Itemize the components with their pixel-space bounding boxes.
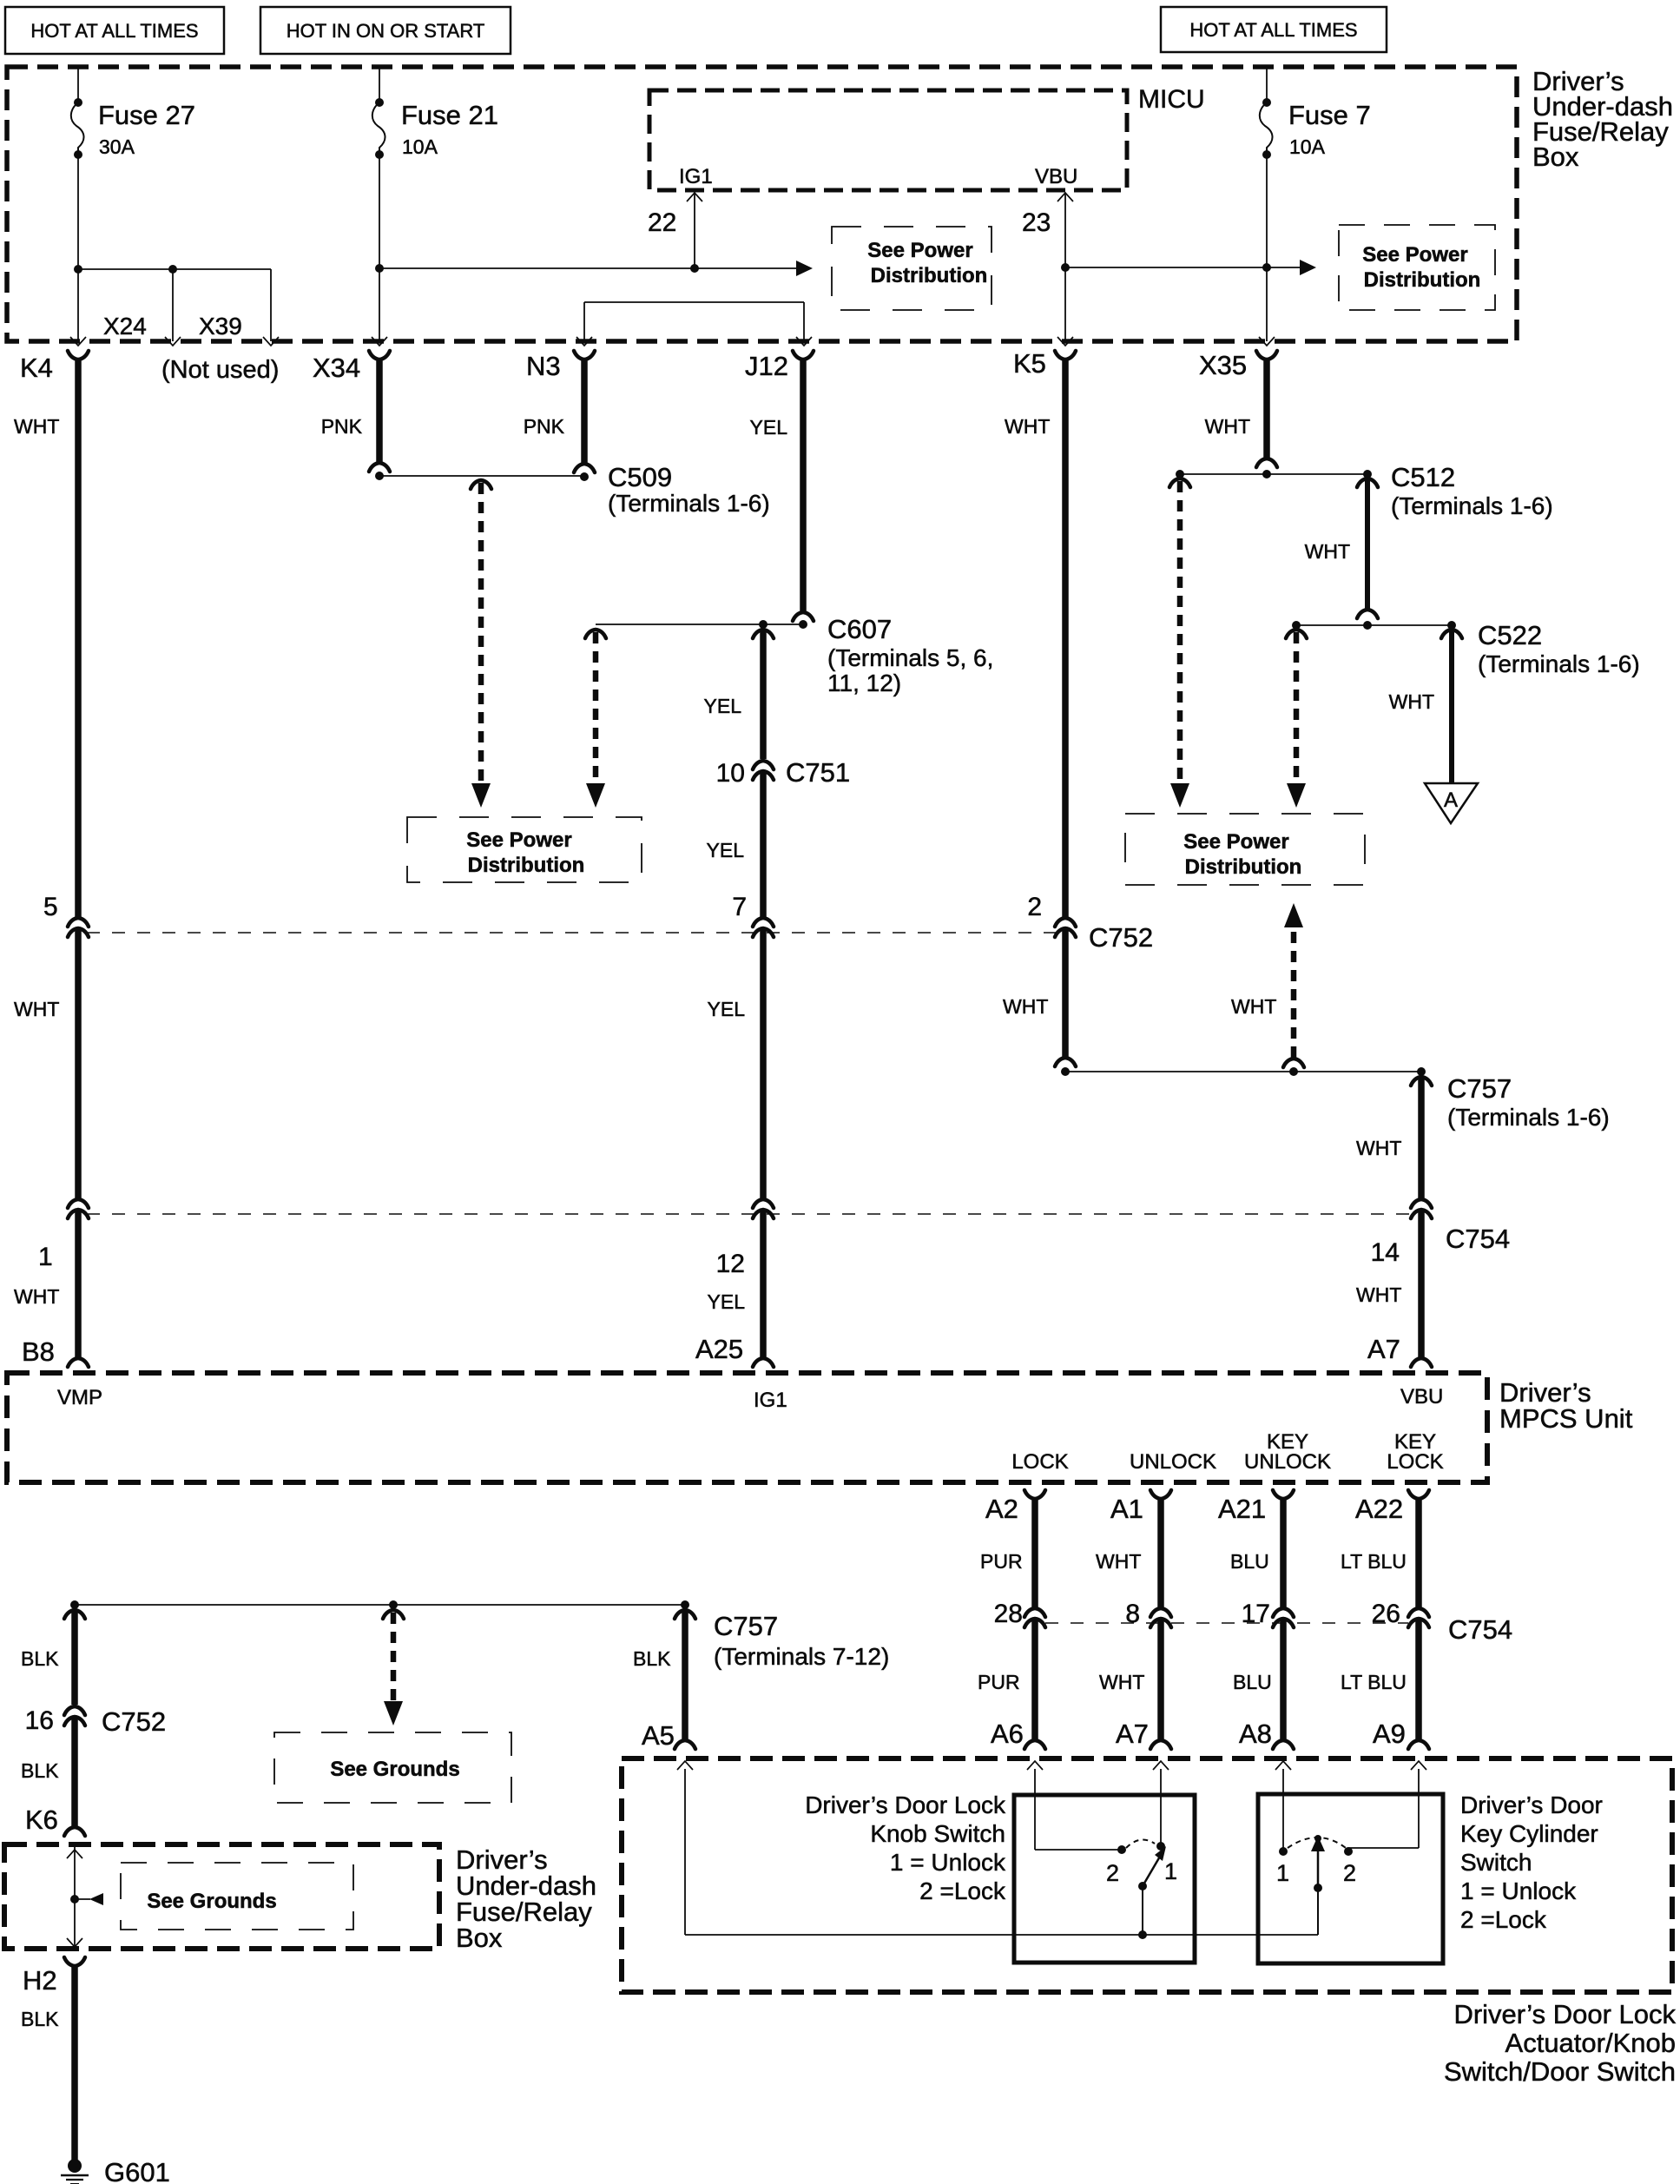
svg-text:A8: A8 [1239,1719,1272,1749]
svg-text:X34: X34 [313,353,360,383]
svg-text:H2: H2 [23,1965,57,1996]
svg-text:2 =Lock: 2 =Lock [1460,1906,1547,1933]
svg-text:Driver’s Door: Driver’s Door [1460,1791,1603,1818]
svg-text:VBU: VBU [1035,165,1077,188]
svg-text:A5: A5 [642,1720,675,1751]
svg-text:A: A [1444,788,1458,812]
svg-text:See Power: See Power [466,828,571,852]
svg-text:WHT: WHT [1205,415,1250,438]
connector line C754 (dashed) [87,1213,1412,1215]
svg-text:Key Cylinder: Key Cylinder [1460,1820,1598,1847]
svg-text:(Terminals 5, 6,: (Terminals 5, 6, [827,644,993,671]
wire X34 PNK [321,351,390,480]
svg-text:BLU: BLU [1230,1550,1269,1573]
svg-text:YEL: YEL [750,416,788,439]
svg-text:Fuse 21: Fuse 21 [401,100,498,130]
svg-text:C754: C754 [1446,1224,1510,1254]
svg-text:1: 1 [1276,1860,1289,1886]
svg-text:YEL: YEL [708,998,746,1020]
wire A1 WHT (UNLOCK) [1096,1490,1171,1749]
svg-text:IG1: IG1 [754,1389,787,1412]
svg-text:MPCS Unit: MPCS Unit [1499,1403,1633,1434]
wire YEL from C607 to MPCS A25 [695,630,850,1367]
switch lever (key cylinder) [1276,1835,1356,1935]
switch Driver's Door Lock Knob Switch (box) [805,1791,1195,1963]
svg-text:17: 17 [1242,1600,1270,1628]
wire A21 BLU (KEY UNLOCK) [1218,1490,1294,1749]
svg-text:Distribution: Distribution [871,264,988,287]
node See Grounds (upper dashed box) [274,1732,511,1803]
svg-text:2: 2 [1343,1860,1356,1886]
svg-text:1 = Unlock: 1 = Unlock [1460,1877,1577,1904]
fuse F27 "Fuse 27 30A" [71,67,195,341]
svg-text:J12: J12 [745,351,788,381]
svg-text:Box: Box [1532,142,1579,172]
svg-text:BLK: BLK [21,1759,59,1782]
svg-text:K6: K6 [25,1805,58,1835]
svg-text:PNK: PNK [321,415,363,438]
svg-text:10A: 10A [402,135,438,158]
node HOT IN ON OR START (header box) [260,7,511,54]
connector C512 junction [1176,462,1553,519]
fuse F7 "Fuse 7 10A" [1260,67,1371,341]
svg-text:VBU: VBU [1400,1385,1443,1409]
connector line C754 (bottom dashed) [1045,1614,1512,1645]
svg-text:30A: 30A [99,135,135,158]
svg-text:(Not used): (Not used) [161,356,279,384]
wire C757 WHT to MPCS A7 [1356,1073,1610,1367]
svg-text:C509: C509 [608,462,672,492]
svg-text:Switch: Switch [1460,1849,1532,1876]
Driver's Door Lock Actuator/Knob Switch/Door Switch (dashed box) [622,1758,1676,2087]
svg-text:A7: A7 [1367,1334,1400,1364]
svg-text:C754: C754 [1448,1614,1512,1645]
svg-text:C752: C752 [102,1706,166,1737]
svg-text:A22: A22 [1355,1494,1403,1524]
svg-text:UNLOCK: UNLOCK [1244,1450,1331,1474]
Driver's Under-dash Fuse/Relay Box (top dashed enclosure) [7,66,1673,341]
svg-text:Fuse 27: Fuse 27 [98,100,195,130]
svg-text:C757: C757 [714,1611,778,1641]
svg-text:YEL: YEL [704,695,742,717]
svg-text:A9: A9 [1373,1719,1406,1749]
wire X35 WHT [1205,351,1277,478]
svg-text:K5: K5 [1013,348,1046,379]
wire internal ground (K6 to H2) [67,1850,82,1858]
svg-text:HOT IN ON OR START: HOT IN ON OR START [287,20,485,42]
svg-text:HOT AT ALL TIMES: HOT AT ALL TIMES [1189,19,1357,41]
svg-text:2 =Lock: 2 =Lock [919,1877,1006,1904]
svg-text:Knob Switch: Knob Switch [870,1820,1005,1847]
wire WHT C512 to C522 [1305,478,1378,630]
svg-text:Box: Box [456,1923,503,1953]
wire A5 internal to switch common [685,1769,1318,1935]
wire N3 PNK [524,351,595,481]
connector C509 junction [379,462,770,517]
svg-text:BLK: BLK [21,2008,59,2030]
switch Driver's Door Key Cylinder Switch (box) [1258,1791,1603,1963]
wire jumper K5/VBU to fuse7 and See Power Distribution [1061,260,1316,275]
svg-text:X39: X39 [199,313,242,340]
svg-text:2: 2 [1027,893,1042,921]
svg-text:1 = Unlock: 1 = Unlock [890,1849,1006,1876]
wire K5 WHT [1003,351,1153,1076]
node HOT AT ALL TIMES (right header box) [1161,7,1387,52]
svg-text:See Power: See Power [1183,830,1288,854]
wire dashed arrow to See Grounds [383,1610,404,1725]
svg-text:Driver’s Door Lock: Driver’s Door Lock [1453,1999,1676,2029]
svg-text:C751: C751 [786,757,850,788]
svg-text:A25: A25 [695,1334,743,1364]
svg-text:LOCK: LOCK [1011,1450,1068,1474]
wire MICU pin 23 (VBU) to K5 [1022,193,1073,341]
svg-text:BLK: BLK [633,1647,671,1670]
wire A6 internal [1035,1769,1126,1854]
svg-text:28: 28 [994,1600,1023,1628]
ground G601 [61,2157,170,2184]
svg-text:LT BLU: LT BLU [1341,1550,1407,1573]
svg-text:7: 7 [732,893,747,921]
svg-text:Distribution: Distribution [1185,855,1302,879]
Driver's MPCS Unit (dashed box) [7,1373,1633,1482]
connector C607 junction [596,614,993,696]
wire A9 internal [1344,1769,1419,1856]
svg-text:16: 16 [25,1706,54,1735]
svg-text:14: 14 [1371,1238,1400,1267]
svg-text:WHT: WHT [1305,540,1350,563]
svg-text:LT BLU: LT BLU [1341,1671,1407,1693]
svg-text:Fuse 7: Fuse 7 [1288,100,1371,130]
svg-text:C607: C607 [827,614,892,644]
svg-text:WHT: WHT [1005,415,1050,438]
wire junction K5 to C757 [1065,1067,1426,1076]
node See Power Distribution (top right dashed box) [1339,225,1495,310]
svg-text:A1: A1 [1110,1494,1143,1524]
svg-text:VMP: VMP [57,1386,102,1409]
svg-text:WHT: WHT [14,1285,59,1308]
svg-text:WHT: WHT [1389,690,1434,713]
svg-text:WHT: WHT [1096,1550,1141,1573]
svg-text:MICU: MICU [1138,85,1205,114]
wire dashed arrow to See Power Distribution (second) [585,630,606,808]
wire dashed arrow to See Power Distribution (third) [1169,478,1190,808]
svg-text:X24: X24 [103,313,147,340]
svg-text:A21: A21 [1218,1494,1266,1524]
wire dashed arrow to See Power Distribution (fourth) [1286,630,1307,808]
wire A7 internal [1156,1769,1165,1851]
connector line C752 (dashed) [87,932,1056,934]
junction exit arrows at fuse box bottom edge [70,337,1275,346]
svg-text:26: 26 [1372,1600,1400,1628]
wire A2 PUR (LOCK) [978,1490,1045,1749]
wire jumper fuse27 to X24/X39 [74,265,271,341]
svg-text:1: 1 [1164,1858,1177,1884]
wire MICU pin 22 (IG1) [648,193,702,268]
svg-text:See Grounds: See Grounds [330,1758,459,1781]
svg-text:HOT AT ALL TIMES: HOT AT ALL TIMES [30,20,198,42]
svg-text:1: 1 [38,1243,53,1271]
svg-text:23: 23 [1022,208,1051,237]
wire BLK to A5 [633,1610,695,1751]
wire C757 terminals 7-12 junction [70,1600,689,1609]
svg-text:Distribution: Distribution [1364,268,1481,292]
node See Grounds (lower dashed box) [121,1863,353,1930]
svg-text:WHT: WHT [1356,1283,1401,1306]
svg-text:C752: C752 [1089,922,1153,953]
svg-text:2: 2 [1106,1860,1119,1886]
svg-text:(Terminals 1-6): (Terminals 1-6) [1478,650,1640,677]
switch lever (knob switch) [1106,1840,1177,1939]
wire N3-J12 bridge [584,302,804,341]
svg-text:LOCK: LOCK [1387,1450,1443,1474]
svg-text:PNK: PNK [524,415,565,438]
svg-text:(Terminals 1-6): (Terminals 1-6) [1391,492,1553,519]
svg-text:12: 12 [716,1250,745,1278]
svg-text:See Grounds: See Grounds [147,1890,276,1913]
svg-text:C757: C757 [1447,1073,1512,1104]
svg-text:Distribution: Distribution [468,854,585,877]
svg-text:11, 12): 11, 12) [827,670,901,696]
svg-text:22: 22 [648,208,676,237]
svg-text:BLU: BLU [1233,1671,1272,1693]
svg-text:WHT: WHT [1003,995,1048,1018]
svg-text:10: 10 [716,759,745,788]
svg-text:C522: C522 [1478,620,1542,650]
node See Power Distribution (left dashed box) [407,817,642,882]
svg-text:Switch/Door Switch: Switch/Door Switch [1444,2056,1676,2087]
svg-text:YEL: YEL [707,839,745,861]
connector C522 junction [1292,620,1640,677]
junction entry arrows at actuator box top edge [677,1761,1426,1770]
node HOT AT ALL TIMES (left header box) [5,7,224,54]
node See Power Distribution (right mid dashed box) [1125,814,1365,885]
node off-page reference A (triangle) [1425,783,1478,823]
wire A8 internal [1279,1769,1288,1856]
svg-text:See Power: See Power [1362,243,1467,267]
fuse F21 "Fuse 21 10A" [372,67,498,341]
svg-text:YEL: YEL [708,1290,746,1313]
wire A22 LT BLU (KEY LOCK) [1341,1490,1429,1749]
svg-text:N3: N3 [526,351,561,381]
svg-text:(Terminals 1-6): (Terminals 1-6) [608,490,770,517]
svg-text:A6: A6 [991,1719,1024,1749]
svg-text:B8: B8 [22,1336,55,1367]
node See Power Distribution (top middle dashed box) [832,227,992,310]
wire WHT to off-page reference A [1389,630,1462,783]
wire BLK to K6 (ground path) [21,1610,166,1836]
svg-text:K4: K4 [20,353,53,383]
wire J12 YEL [750,351,814,629]
svg-text:X35: X35 [1199,350,1247,380]
svg-text:WHT: WHT [1356,1137,1401,1159]
svg-text:(Terminals 7-12): (Terminals 7-12) [714,1643,889,1670]
wire dashed arrow up to See Power Distribution (WHT) [1231,903,1304,1067]
svg-text:PUR: PUR [978,1671,1020,1693]
wire dashed arrow to See Power Distribution (left) [471,480,491,808]
svg-text:IG1: IG1 [679,165,713,188]
MICU module (dashed box) [649,85,1205,190]
wire jumper fuse21/IG1 to See Power Distribution [375,261,813,276]
svg-text:WHT: WHT [14,998,59,1020]
svg-text:See Power: See Power [867,239,972,262]
wire K4 WHT vertical to MPCS B8 [14,351,89,1367]
wire H2 BLK to ground [21,1957,85,2160]
svg-text:BLK: BLK [21,1647,59,1670]
svg-text:8: 8 [1125,1600,1140,1628]
svg-text:G601: G601 [104,2157,170,2184]
svg-text:UNLOCK: UNLOCK [1130,1450,1216,1474]
svg-text:A7: A7 [1116,1719,1149,1749]
Driver's Under-dash Fuse/Relay Box (bottom dashed enclosure) [4,1844,596,1953]
svg-text:WHT: WHT [1099,1671,1144,1693]
svg-text:A2: A2 [985,1494,1018,1524]
svg-text:WHT: WHT [1231,995,1276,1018]
svg-text:5: 5 [43,893,58,921]
svg-text:Actuator/Knob: Actuator/Knob [1505,2028,1676,2058]
connector C757 (Terminals 7-12) label [714,1611,889,1670]
svg-text:Driver’s Door Lock: Driver’s Door Lock [805,1791,1006,1818]
svg-text:10A: 10A [1289,135,1326,158]
svg-text:PUR: PUR [980,1550,1023,1573]
svg-text:C512: C512 [1391,462,1455,492]
svg-text:WHT: WHT [14,415,59,438]
svg-text:(Terminals 1-6): (Terminals 1-6) [1447,1104,1610,1131]
